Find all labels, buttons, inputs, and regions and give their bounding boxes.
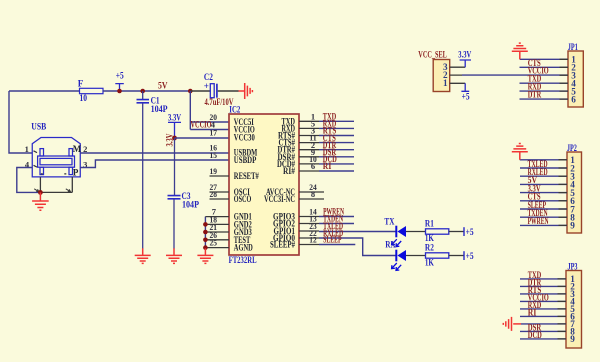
- svg-text:SLEEP#: SLEEP#: [270, 240, 295, 250]
- svg-text:8: 8: [311, 189, 315, 199]
- LED TX: [384, 216, 406, 246]
- IC right pin stubs rows 1-6: [299, 121, 319, 171]
- svg-text:1: 1: [25, 144, 29, 154]
- junction on rail at C1: [140, 89, 145, 94]
- svg-text:SLEEP: SLEEP: [323, 235, 342, 245]
- svg-text:6: 6: [311, 161, 315, 171]
- svg-text:FT232RL: FT232RL: [229, 255, 257, 265]
- svg-text:RI: RI: [528, 307, 537, 317]
- svg-text:104P: 104P: [182, 200, 199, 210]
- JP2 pin stubs: [559, 160, 568, 226]
- svg-text:USB: USB: [31, 122, 46, 132]
- GND pin stubs: [205, 217, 229, 248]
- svg-text:VCC_SEL: VCC_SEL: [418, 50, 447, 60]
- svg-text:RESET#: RESET#: [234, 171, 259, 181]
- svg-text:9: 9: [570, 221, 575, 231]
- JP1 net labels: [528, 58, 549, 100]
- svg-text:10: 10: [80, 93, 88, 103]
- svg-text:JP3: JP3: [568, 261, 578, 271]
- svg-text:+: +: [204, 81, 209, 91]
- svg-text:PWREN: PWREN: [528, 216, 549, 226]
- svg-text:OSCO: OSCO: [234, 194, 252, 204]
- svg-text:VCC30: VCC30: [234, 133, 255, 143]
- pin number 4: [211, 120, 216, 130]
- svg-text:25: 25: [210, 238, 218, 248]
- capacitor C2 polarized: [204, 72, 234, 107]
- wire RXLED to RX LED: [299, 238, 396, 256]
- fuse F: [78, 78, 103, 103]
- IC left pin numbers: [210, 112, 218, 248]
- junction shield ground: [38, 190, 43, 195]
- power +5 at VCC_SEL: [461, 83, 470, 101]
- svg-text:9: 9: [570, 334, 575, 344]
- JP1 wires: [520, 59, 569, 99]
- capacitor C1: [137, 91, 169, 114]
- IC right pin numbers: [309, 111, 317, 244]
- net label VCCIO at pin4: [191, 120, 212, 130]
- wires TXD..RI: [319, 121, 354, 171]
- pins 14,13,12 stubs and wires: [299, 217, 355, 245]
- wire TXLED to TX LED: [299, 230, 396, 233]
- IC left pin names: [234, 117, 259, 253]
- svg-text:RI: RI: [323, 161, 332, 171]
- USB pin number 2: [83, 144, 87, 154]
- op-amp/IC U1 FT232RL body: [229, 104, 299, 265]
- junction 3.3V node: [172, 136, 177, 141]
- USB pin name M: [73, 144, 82, 154]
- junction on rail at VCC tap: [188, 89, 193, 94]
- resistor R1: [425, 218, 449, 243]
- power +5 at R2: [464, 251, 474, 261]
- ground at C3: [166, 248, 182, 263]
- svg-text:USBDP: USBDP: [234, 155, 257, 165]
- JP3 pin stubs: [558, 279, 567, 339]
- net label 3.3V vertical: [165, 133, 175, 146]
- wire USB pin4 to shield ground: [17, 168, 41, 193]
- svg-text:5V: 5V: [158, 80, 168, 90]
- svg-text:JP1: JP1: [568, 42, 578, 52]
- svg-text:15: 15: [210, 150, 218, 160]
- ground at JP3 (sideways left): [503, 317, 521, 331]
- svg-text:3.3V: 3.3V: [168, 113, 181, 123]
- svg-text:28: 28: [210, 189, 218, 199]
- USB pin number 4: [25, 160, 30, 170]
- svg-text:JP2: JP2: [567, 143, 577, 153]
- svg-text:TX: TX: [384, 216, 394, 226]
- IC right pin names: [264, 117, 295, 250]
- pin 19 stub: [210, 175, 230, 177]
- svg-text:C2: C2: [204, 72, 213, 82]
- svg-text:+5: +5: [116, 71, 124, 81]
- svg-text:1K: 1K: [425, 257, 434, 267]
- pin 27 stub: [210, 191, 230, 193]
- svg-text:19: 19: [210, 166, 218, 176]
- pin 24 stub: [299, 191, 324, 193]
- pin 8 stub: [299, 198, 324, 200]
- net labels right of IC: [323, 112, 345, 245]
- header VCC_SEL: [418, 50, 449, 92]
- wire 3.3V to VCC30 pin17: [175, 137, 230, 139]
- USB pin marks: [34, 151, 67, 174]
- JP3 wires: [520, 279, 566, 339]
- svg-text:DTR: DTR: [528, 90, 542, 100]
- junction on rail at +5: [117, 89, 122, 94]
- wire RX LED to R2: [406, 255, 426, 257]
- ground at JP1: [512, 43, 528, 59]
- power +5 top: [115, 71, 124, 91]
- label USB: [31, 122, 46, 132]
- svg-text:P: P: [73, 167, 79, 177]
- svg-text:3.3V: 3.3V: [458, 50, 471, 60]
- JP1 pin stubs: [560, 59, 569, 99]
- svg-text:VCC3I-NC: VCC3I-NC: [264, 194, 295, 204]
- power +5 at R1: [464, 227, 474, 237]
- wire R2 to +5: [449, 255, 464, 257]
- wire USB shield stubs: [34, 177, 72, 192]
- VCC_SEL pin stubs: [450, 67, 466, 83]
- wire 5V rail left segment: [9, 90, 80, 92]
- ground at C1: [135, 248, 151, 263]
- wire USB pin3 to USBDP: [80, 160, 229, 168]
- GND bus vertical: [204, 217, 206, 249]
- svg-text:RI#: RI#: [283, 166, 295, 176]
- header JP3: [566, 261, 582, 348]
- wire TX LED to R1: [406, 231, 426, 233]
- svg-text:20: 20: [210, 112, 218, 122]
- USB pin name P: [73, 167, 79, 177]
- wire rail to C2: [190, 90, 210, 92]
- svg-text:+5: +5: [466, 227, 474, 237]
- svg-text:1K: 1K: [425, 233, 434, 243]
- svg-text:1: 1: [443, 78, 448, 88]
- ground under USB: [32, 192, 49, 210]
- wire 5V tap to VCC5I pin20 and VCCIO pin4: [190, 91, 229, 130]
- svg-text:17: 17: [210, 128, 218, 138]
- LED RX: [385, 240, 406, 271]
- power 3.3V top: [168, 113, 181, 138]
- capacitor C3: [168, 191, 200, 210]
- wire C3 to ground: [173, 199, 175, 248]
- junctions on GND bus: [203, 222, 208, 250]
- JP2 net labels: [528, 159, 549, 226]
- svg-text:R2: R2: [425, 243, 434, 253]
- svg-text:6: 6: [571, 94, 576, 104]
- wire USB pin2 to USBDM: [80, 152, 229, 154]
- svg-text:IC2: IC2: [229, 104, 240, 114]
- svg-text:DCD: DCD: [528, 330, 542, 340]
- svg-text:+5: +5: [466, 251, 474, 261]
- wire C2 to ground: [218, 90, 239, 92]
- svg-text:RX: RX: [385, 240, 396, 250]
- wire 3.3V node to C3: [174, 138, 176, 195]
- svg-text:AGND: AGND: [234, 243, 253, 253]
- ground at JP2: [512, 144, 528, 160]
- JP3 net labels: [528, 270, 549, 340]
- svg-text:104P: 104P: [151, 104, 168, 114]
- svg-text:VCCIO: VCCIO: [191, 120, 212, 130]
- wire VCCIO VCC_SEL pin2 to JP1 pin3: [462, 74, 568, 76]
- USB pin number 3: [83, 159, 87, 169]
- svg-text:R1: R1: [425, 218, 434, 228]
- wire R1 to +5: [449, 231, 464, 233]
- net label 5V: [158, 80, 168, 90]
- wire C1 to ground: [142, 103, 144, 248]
- ground at GND bus: [197, 248, 213, 263]
- svg-text:F: F: [78, 78, 84, 88]
- svg-text:+5: +5: [462, 92, 470, 102]
- svg-text:12: 12: [309, 235, 317, 245]
- header JP1: [568, 42, 584, 107]
- USB connector body: [32, 138, 80, 177]
- JP2 wires: [520, 160, 567, 226]
- power 3.3V at VCC_SEL: [458, 50, 471, 68]
- wire rail down-left to USB pin1: [9, 91, 32, 153]
- ground right of C2 (sideways): [239, 83, 253, 99]
- header JP2: [567, 143, 582, 233]
- resistor R2: [425, 243, 449, 268]
- USB pin number 1: [25, 144, 29, 154]
- pin 28 stub: [210, 198, 230, 200]
- wire 5V rail middle segment: [103, 90, 190, 92]
